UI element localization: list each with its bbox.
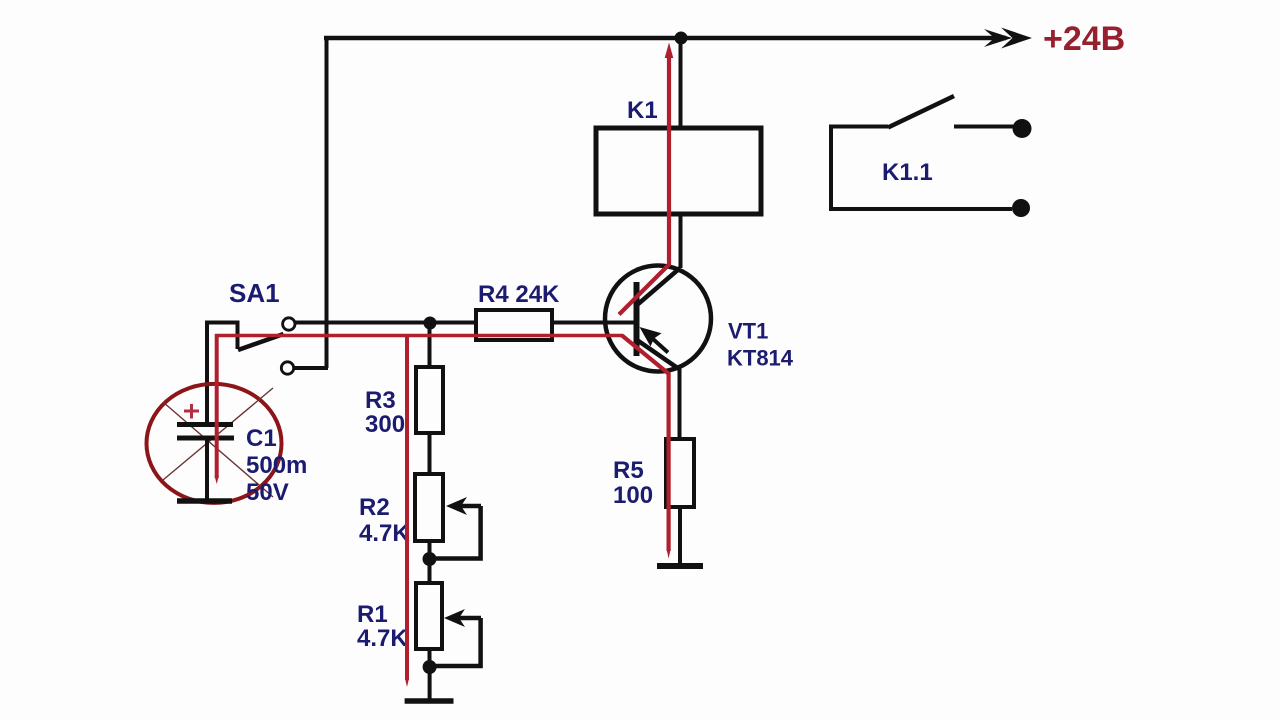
- transistor VT1 base bar: [634, 282, 640, 356]
- arrowhead +24V: [984, 28, 1032, 49]
- svg-text:300: 300: [365, 411, 405, 438]
- capacitor C1 bottom lead: [205, 440, 209, 500]
- svg-text:R3: R3: [365, 387, 396, 414]
- wire: emitter down to R5: [678, 368, 682, 440]
- switch SA1 lower contact circle: [281, 362, 293, 374]
- svg-text:50V: 50V: [246, 479, 289, 506]
- red wire: vertical along R3 R2 R1: [405, 334, 409, 680]
- red wire: vertical through R5: [666, 372, 670, 551]
- svg-text:4.7K: 4.7K: [359, 520, 410, 547]
- ground under C1: [177, 498, 232, 504]
- red wire: diagonal into transistor top: [619, 264, 670, 315]
- ground under R1: [405, 698, 454, 704]
- node: R2 wiper junction dot: [423, 552, 437, 566]
- wire: K1.1 right stub: [954, 125, 1015, 129]
- wire: left vertical drop from rail to SA1 lower contact: [325, 38, 329, 368]
- red wire pointed tip below R5: [667, 549, 671, 559]
- red wire: vertical into C1: [215, 334, 219, 478]
- contact K1.1 left bracket wire: [831, 127, 1012, 210]
- relay coil K1: [596, 128, 761, 214]
- potentiometer R1 body: [416, 583, 442, 649]
- red wire pointed tip in C1: [215, 476, 219, 484]
- capacitor C1 top lead: [205, 322, 209, 423]
- red wire: diagonal from base to emitter: [622, 336, 669, 375]
- svg-text:K1: K1: [627, 97, 658, 124]
- capacitor C1 bottom plate: [177, 436, 234, 441]
- node: R1 wiper junction dot: [423, 660, 437, 674]
- svg-text:K1.1: K1.1: [882, 159, 933, 186]
- capacitor C1 envelope circle: [147, 384, 282, 503]
- red wire: horizontal from C1 to transistor base: [215, 334, 623, 337]
- svg-text:R2: R2: [359, 494, 390, 521]
- svg-text:500m: 500m: [246, 452, 307, 479]
- svg-text:KT814: KT814: [727, 346, 794, 371]
- node: junction dot at R3 top / base rail: [424, 317, 437, 330]
- resistor R4 24K: [476, 310, 552, 340]
- resistor R5: [666, 439, 694, 507]
- potentiometer R2 body: [415, 474, 443, 541]
- capacitor C1 cross line 1: [163, 402, 273, 497]
- capacitor C1 top plate: [177, 422, 233, 427]
- red wire pointed tip below R1: [405, 678, 409, 687]
- wire: base rail from SA1 to transistor base: [295, 321, 636, 325]
- wire: R3-R2-R1 vertical chain: [428, 323, 432, 667]
- wire: SA1 lower contact to vertical drop: [294, 366, 328, 370]
- svg-text:R5: R5: [613, 457, 644, 484]
- svg-text:R4 24K: R4 24K: [478, 281, 560, 308]
- switch SA1 upper contact circle: [283, 318, 295, 330]
- ground under R5: [657, 563, 703, 569]
- svg-text:+24B: +24B: [1043, 20, 1125, 58]
- capacitor C1 plus sign: [184, 404, 199, 419]
- capacitor C1 cross line 2: [163, 388, 273, 480]
- svg-text:4.7K: 4.7K: [357, 625, 408, 652]
- switch SA1 blade: [238, 334, 284, 350]
- potentiometer R2 wiper arrow: [432, 497, 481, 559]
- red current path arrowhead at top: [665, 43, 674, 59]
- transistor VT1 emitter arrow: [640, 327, 662, 347]
- svg-text:SA1: SA1: [229, 278, 280, 308]
- potentiometer R1 wiper arrow: [433, 609, 481, 666]
- svg-text:100: 100: [613, 482, 653, 509]
- switch SA1 pole bracket: [207, 323, 238, 425]
- transistor VT1 emitter diagonal: [637, 340, 679, 369]
- red wire: vertical through relay K1: [667, 52, 671, 266]
- wire: R5 to ground: [678, 507, 682, 563]
- wire: R1 to ground: [428, 667, 432, 700]
- wire: +24V top rail: [324, 36, 1006, 41]
- contact K1.1 blade: [888, 96, 954, 128]
- transistor VT1 collector diagonal: [637, 268, 680, 305]
- node: K1.1 bottom terminal dot: [1012, 199, 1030, 217]
- transistor VT1 circle: [605, 266, 711, 372]
- resistor R3: [416, 367, 443, 433]
- node: K1.1 top terminal dot: [1013, 119, 1032, 138]
- svg-text:R1: R1: [357, 601, 388, 628]
- node: junction on +24V rail: [675, 32, 688, 45]
- svg-text:C1: C1: [246, 425, 277, 452]
- svg-text:VT1: VT1: [728, 319, 768, 344]
- wire: junction down to relay coil K1: [679, 38, 683, 268]
